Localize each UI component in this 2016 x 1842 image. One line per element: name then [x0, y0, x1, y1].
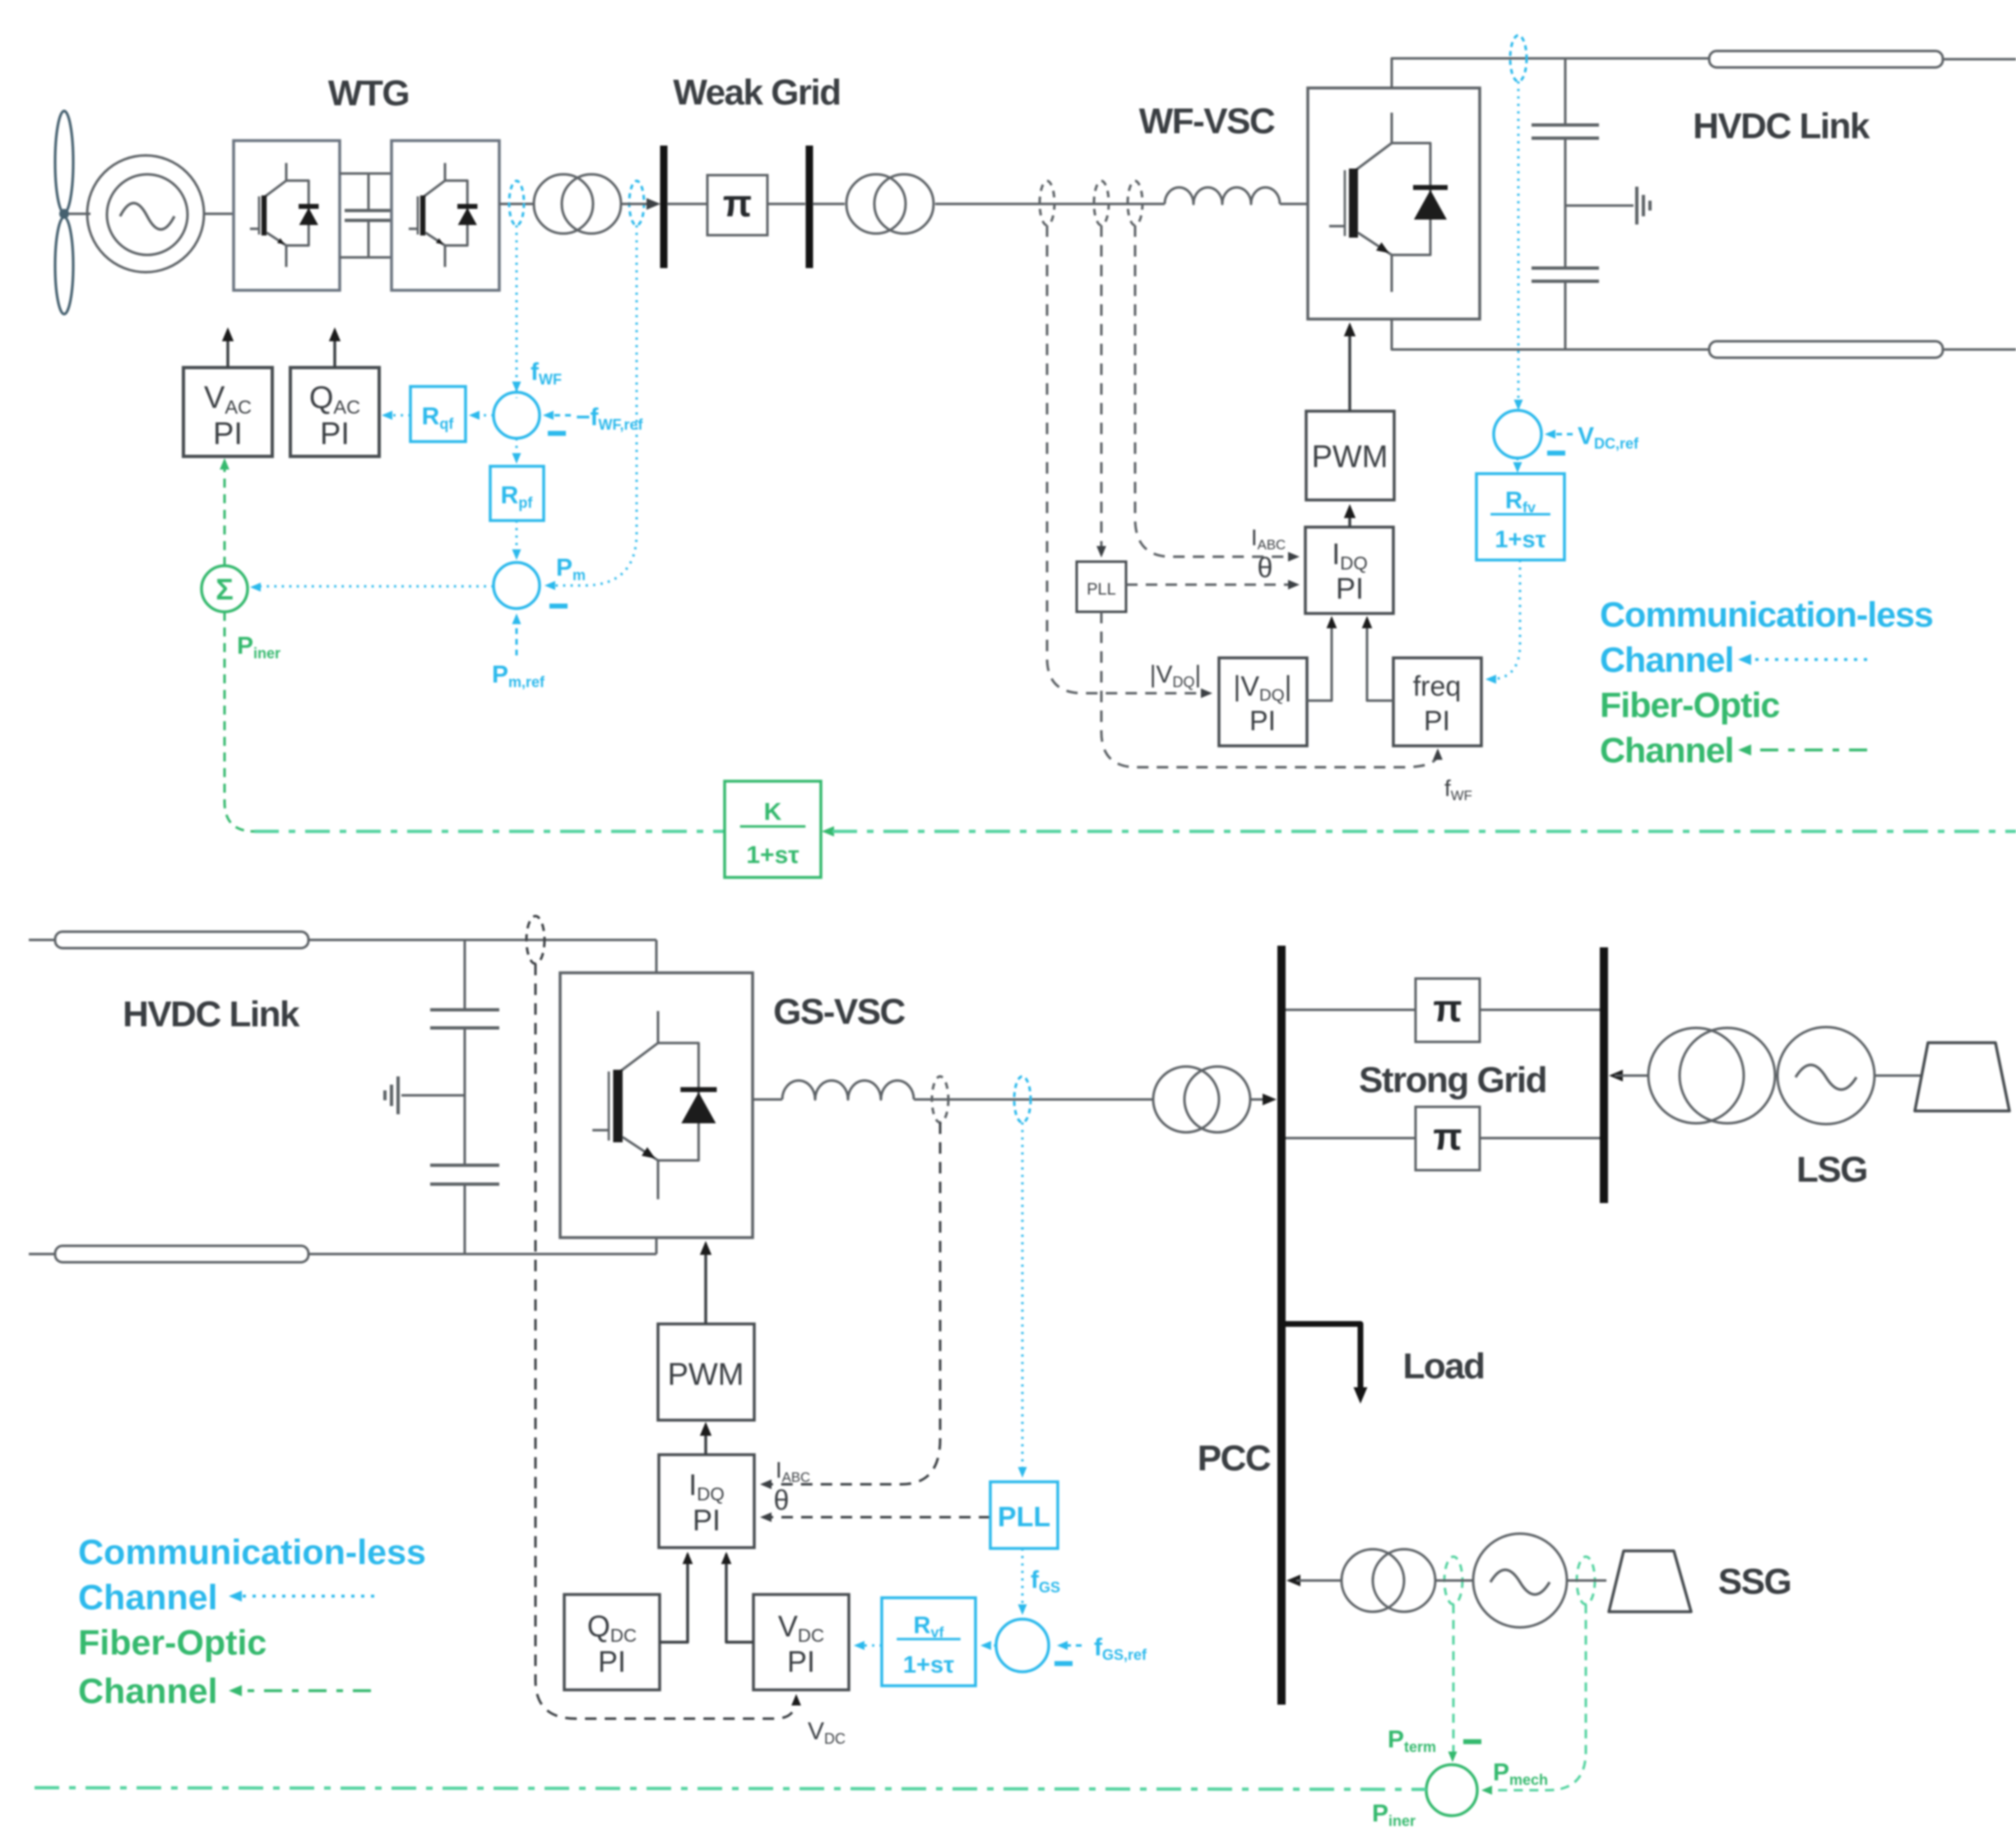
summing junction fGS — [996, 1619, 1049, 1672]
DC capacitor branch middle — [1564, 138, 1567, 268]
wire to ground (GS midpoint) — [401, 1095, 465, 1097]
svg-text:PI: PI — [320, 417, 350, 451]
DC capacitor branch (GS) middle — [464, 1028, 466, 1165]
svg-text:WTG: WTG — [328, 73, 409, 113]
blue dotted Vdc measurement drop — [1518, 81, 1520, 405]
block freq PI — [1393, 658, 1481, 746]
fiber-optic channel line (bottom) — [35, 1788, 1426, 1789]
gray dashed VDQ measurement to VDQ PI — [1047, 225, 1207, 693]
svg-text:K: K — [764, 798, 782, 826]
svg-text:HVDC Link: HVDC Link — [1693, 106, 1870, 146]
arrow into strong grid bus from LSG — [1609, 1070, 1623, 1081]
generator G (WTG) — [87, 155, 204, 272]
measurement tap ellipse Vdc (black dashed) — [526, 916, 545, 964]
strong grid top branch right — [1480, 1009, 1600, 1011]
fiber-optic channel line into K block — [254, 830, 725, 833]
pi section box top (strong grid) — [1416, 979, 1480, 1042]
HVDC bottom cable — [1709, 341, 1943, 358]
DC capacitor branch upper — [1564, 58, 1567, 125]
wire to ground (midpoint) — [1565, 205, 1634, 207]
svg-text:SSG: SSG — [1718, 1562, 1791, 1602]
transformer T5 (SSG) — [1342, 1549, 1404, 1612]
wire turbine to generator — [69, 213, 90, 215]
wire generator to machine-side converter — [204, 213, 234, 215]
DC capacitor branch (GS) lower — [464, 1184, 466, 1254]
HVDC cable (bottom-left top) — [55, 932, 308, 948]
arrow IDQ PI to PWM — [1348, 510, 1351, 527]
wire GS-VSC to inductor — [753, 1099, 782, 1101]
green dashed sigma to VAC PI — [224, 462, 226, 566]
arrow into weak-grid bus 1 — [647, 198, 660, 210]
wire QDC PI to IDQ PI — [660, 1554, 688, 1642]
fiber-optic channel line from right edge — [832, 830, 2016, 833]
IGBT inside GS-VSC — [592, 1011, 716, 1200]
IGBT inside machine-side converter — [250, 163, 319, 266]
wire inductor to transformer T3 — [914, 1099, 1153, 1101]
minus sign (Pm) — [549, 604, 568, 609]
legend green dashed arrow (top) — [1747, 748, 1867, 752]
wire T2 to WF-VSC — [935, 203, 1165, 206]
blue dotted sum to Rfv block — [1517, 458, 1519, 469]
block QDC PI — [564, 1594, 660, 1690]
svg-text:HVDC Link: HVDC Link — [123, 994, 300, 1034]
svg-text:PWM: PWM — [668, 1358, 744, 1392]
DC capacitor branch (GS) upper — [464, 940, 466, 1010]
block IDQ PI (WF) — [1305, 527, 1393, 613]
block K/(1+s tau) — [725, 781, 821, 877]
block PLL (GS, blue) — [990, 1482, 1058, 1548]
DC link top wire — [340, 173, 392, 175]
legend blue dotted arrow (top) — [1747, 658, 1867, 661]
IGBT inside WF-VSC — [1329, 113, 1448, 292]
svg-text:π: π — [1433, 987, 1462, 1030]
svg-text:GS-VSC: GS-VSC — [773, 992, 905, 1032]
gray dashed PLL theta to IDQ PI (GS) — [765, 1516, 990, 1519]
prime mover trapezoid (SSG) — [1609, 1551, 1691, 1612]
block QAC PI — [290, 368, 379, 456]
black dashed Vdc measurement to VDC PI — [535, 964, 796, 1719]
svg-text:Fiber-Optic: Fiber-Optic — [78, 1623, 266, 1663]
measurement tap ellipse PLL-GS (blue) — [1014, 1076, 1031, 1122]
svg-text:PWM: PWM — [1312, 440, 1388, 474]
measurement tap ellipse Pm (blue) — [629, 181, 644, 225]
block PWM (GS) — [658, 1324, 754, 1420]
svg-text:PI: PI — [1424, 706, 1450, 737]
wire top cable to GS-VSC — [308, 939, 656, 942]
svg-text:Channel: Channel — [78, 1672, 218, 1711]
block VDQ PI — [1219, 658, 1307, 746]
summing junction Piner (green) — [1426, 1765, 1477, 1816]
svg-text:Channel: Channel — [1600, 641, 1734, 680]
pi section box bottom (strong grid) — [1416, 1107, 1480, 1170]
svg-text:PI: PI — [213, 417, 243, 451]
wire T1 to weak-grid bus — [621, 203, 653, 206]
svg-text:PCC: PCC — [1198, 1438, 1271, 1479]
svg-text:PI: PI — [598, 1645, 626, 1678]
blue dotted fGS sum to Rvf — [985, 1645, 996, 1647]
legend green dashed arrow (bottom) — [238, 1689, 371, 1692]
svg-text:Load: Load — [1402, 1346, 1484, 1386]
measurement tap ellipse Pmech (green) — [1577, 1557, 1595, 1604]
DC capacitor C2 (bottom) — [1532, 266, 1599, 270]
busbar weak grid 1 — [660, 146, 668, 268]
pi section box (weak grid) — [707, 175, 767, 235]
generator SSG — [1473, 1534, 1567, 1627]
wire GS-VSC bottom to rail — [656, 1238, 658, 1254]
wire T5 to SSG generator — [1435, 1580, 1473, 1582]
wire bottom cable to GS-VSC — [308, 1253, 656, 1256]
gray dashed PLL input drop — [1101, 225, 1103, 553]
measurement tap ellipse Pterm (green) — [1444, 1557, 1462, 1604]
DC link capacitor C — [345, 209, 392, 212]
DC link capacitor stubs — [368, 174, 370, 211]
green dashed Pmech drop — [1485, 1604, 1586, 1790]
wire HVDC top cable to edge — [1943, 58, 2016, 61]
svg-text:1+sτ: 1+sτ — [746, 841, 799, 868]
wire VDC PI to IDQ PI — [726, 1554, 753, 1642]
wire VDQ PI output to IDQ PI — [1307, 618, 1332, 701]
block Rqf — [410, 386, 466, 442]
arrow into PCC from SSG — [1286, 1575, 1300, 1586]
arrow VAC PI output up — [226, 333, 229, 368]
wire SSG generator to prime mover — [1567, 1580, 1606, 1582]
load feeder thick line — [1286, 1324, 1360, 1388]
DC capacitor C4 (bottom) — [430, 1164, 499, 1167]
WF-VSC converter box — [1308, 88, 1480, 319]
generator LSG — [1777, 1027, 1875, 1124]
svg-text:1+sτ: 1+sτ — [903, 1652, 954, 1678]
gray dashed IABC to IDQ PI (GS) — [765, 1122, 940, 1484]
summing junction fWF — [494, 392, 540, 438]
WTG grid-side converter box — [392, 141, 499, 290]
minus sign (fGS,ref) — [1054, 1661, 1073, 1666]
svg-text:π: π — [1433, 1115, 1462, 1158]
block Rfv/(1+s tau) — [1476, 474, 1564, 560]
legend blue dotted arrow (bottom) — [238, 1594, 374, 1598]
svg-text:PLL: PLL — [998, 1502, 1050, 1533]
IGBT inside grid-side converter — [409, 163, 478, 266]
stub fGS,ref into summing junction — [1062, 1645, 1082, 1647]
minus sign (Vdc,ref) — [1547, 451, 1565, 456]
measurement tap ellipse IABC (gray) — [1128, 181, 1142, 225]
svg-text:LSG: LSG — [1796, 1150, 1867, 1190]
stub Pm,ref into summing junction — [516, 618, 518, 655]
WF-VSC bottom DC rail — [1392, 319, 1709, 349]
blue dotted PLL input drop (GS) — [1022, 1122, 1024, 1472]
svg-text:PI: PI — [787, 1645, 815, 1678]
transformer T2 — [846, 174, 906, 234]
busbar PCC — [1277, 946, 1286, 1705]
measurement tap ellipse IABC-GS (gray) — [932, 1076, 948, 1122]
svg-text:Communication-less: Communication-less — [78, 1533, 426, 1572]
svg-text:π: π — [723, 182, 752, 224]
wire down into GS-VSC top — [656, 940, 658, 973]
HVDC bottom-left top cable stub — [29, 939, 55, 942]
svg-text:Communication-less: Communication-less — [1600, 595, 1933, 635]
blue dotted sum to Rqf — [474, 414, 494, 417]
block Rvf/(1+s tau) — [882, 1598, 976, 1686]
gray dashed PLL theta to IDQ PI — [1126, 584, 1295, 586]
HVDC top cable — [1709, 51, 1943, 67]
wire T4 to LSG generator — [1775, 1075, 1778, 1077]
blue dotted Pm measurement drop — [549, 225, 637, 585]
svg-text:PI: PI — [693, 1503, 721, 1537]
DC capacitor C3 (top) — [430, 1008, 499, 1011]
svg-text:1+sτ: 1+sτ — [1495, 526, 1546, 553]
blue dotted fWF measurement drop — [516, 225, 518, 398]
block Rpf — [490, 466, 544, 521]
svg-text:PI: PI — [1336, 572, 1364, 605]
measurement tap ellipse fWF (blue) — [509, 181, 524, 225]
blue dotted Rvf to VDC PI — [859, 1645, 882, 1647]
busbar weak grid 2 — [806, 146, 813, 268]
phase reactor inductor (GS-VSC) — [782, 1081, 914, 1099]
busbar strong grid 2 — [1600, 947, 1608, 1203]
svg-text:WF-VSC: WF-VSC — [1139, 101, 1275, 141]
wire converter to transformer T1 — [499, 203, 534, 206]
wire inductor to WF-VSC box — [1280, 203, 1308, 206]
gray dashed PLL to freq PI (fWF) — [1101, 612, 1438, 767]
blue dotted Pm sum to sigma — [255, 585, 494, 588]
arrow into PCC bus — [1263, 1094, 1277, 1105]
blue dotted Rfv to freq PI — [1490, 560, 1520, 679]
WTG machine-side converter box — [234, 141, 340, 290]
measurement tap ellipse Vdc (blue) — [1510, 35, 1527, 81]
wire freq PI output to IDQ PI — [1367, 618, 1393, 701]
wire bus1 to pi section — [667, 203, 707, 206]
stub Vdc,ref into summing junction — [1550, 433, 1573, 436]
svg-text:PI: PI — [1249, 706, 1276, 737]
arrowhead into K block — [822, 826, 834, 837]
arrow IDQ PI to PWM (GS) — [704, 1428, 707, 1455]
summing junction sigma (green) — [202, 566, 248, 612]
WF-VSC top DC rail — [1392, 58, 1709, 88]
svg-text:θ: θ — [1258, 553, 1273, 584]
transformer T1 — [534, 174, 593, 234]
strong grid bottom branch right — [1480, 1137, 1600, 1140]
svg-text:Fiber-Optic: Fiber-Optic — [1600, 686, 1779, 725]
ground symbol (GS-VSC DC link) — [396, 1076, 400, 1114]
DC link bottom wire — [340, 257, 392, 259]
minus sign (Pterm) — [1463, 1739, 1481, 1744]
svg-text:freq: freq — [1413, 671, 1462, 702]
blue dotted Rpf to Pm junction — [516, 521, 518, 556]
ground symbol (WF-VSC DC link) — [1635, 187, 1638, 224]
block IDQ PI (GS) — [659, 1455, 754, 1548]
phase reactor inductor (WF-VSC) — [1165, 187, 1280, 204]
HVDC cable (bottom-left bottom) — [55, 1246, 308, 1262]
svg-text:θ: θ — [774, 1485, 790, 1516]
svg-text:Strong Grid: Strong Grid — [1359, 1060, 1546, 1100]
arrow PWM to WF-VSC — [1348, 328, 1351, 411]
minus sign (fWF,ref) — [548, 431, 566, 436]
svg-text:PLL: PLL — [1087, 581, 1116, 599]
transformer T4 (LSG) — [1648, 1028, 1744, 1123]
svg-text:Channel: Channel — [78, 1578, 218, 1618]
wire HVDC bottom cable to edge — [1943, 349, 2016, 351]
arrow QAC PI output up — [333, 333, 336, 368]
blue dotted sum to Rpf — [516, 438, 518, 460]
wire PCC to SSG transformer — [1296, 1580, 1342, 1582]
summing junction Pm — [494, 562, 540, 609]
measurement tap ellipse VDQ (gray) — [1040, 181, 1054, 225]
prime mover trapezoid (LSG) — [1915, 1043, 2009, 1111]
wire T3 to PCC bus — [1251, 1099, 1270, 1101]
DC capacitor branch lower — [1564, 281, 1567, 349]
measurement tap ellipse PLL (gray) — [1094, 181, 1109, 225]
block VAC PI — [183, 368, 272, 456]
blue dotted Rqf to QAC PI — [386, 414, 410, 417]
HVDC bottom-left bottom cable stub — [29, 1253, 55, 1256]
wire bus2 to LSG transformer — [1615, 1075, 1649, 1077]
summing junction Vdc — [1494, 410, 1541, 458]
wire bus2 to transformer T2 — [813, 203, 845, 206]
svg-text:Weak Grid: Weak Grid — [673, 72, 840, 113]
svg-text:Channel: Channel — [1600, 731, 1734, 771]
svg-text:Σ: Σ — [216, 572, 234, 606]
blue dotted PLL to fGS junction — [1022, 1548, 1024, 1610]
transformer T3 (GS to PCC) — [1153, 1067, 1219, 1132]
DC capacitor C1 (top) — [1532, 123, 1599, 127]
block PLL small (WF) — [1077, 562, 1126, 612]
wire LSG generator to prime mover — [1875, 1075, 1926, 1077]
stub fWF,ref into summing junction — [548, 414, 571, 417]
wind turbine rotor blades — [55, 111, 73, 213]
wire pi to bus2 — [767, 203, 805, 206]
gray dashed IABC measurement to IDQ PI — [1135, 225, 1295, 557]
strong grid bottom branch left — [1286, 1137, 1416, 1140]
strong grid top branch left — [1286, 1009, 1416, 1011]
green dashed Pterm drop — [1453, 1604, 1455, 1757]
green dashed sigma down to fiber channel — [225, 612, 254, 831]
block VDC PI — [753, 1594, 849, 1690]
block PWM (WF) — [1306, 411, 1394, 500]
arrowhead load — [1354, 1387, 1368, 1404]
GS-VSC converter box — [560, 973, 753, 1238]
arrow PWM to GS-VSC — [704, 1247, 707, 1324]
